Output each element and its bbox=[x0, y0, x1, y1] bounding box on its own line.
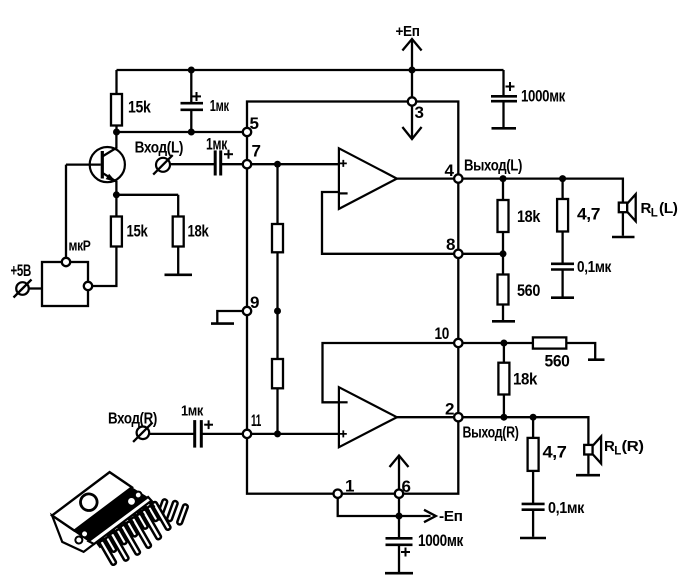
capacitor 1uF input L bbox=[171, 150, 248, 176]
pin number 5 bbox=[250, 114, 259, 133]
resistor 18k (channel L) bbox=[498, 179, 509, 254]
wire: emitter row to 18k bbox=[116, 194, 178, 196]
op-amp U1a bbox=[339, 148, 397, 209]
svg-text:10: 10 bbox=[435, 324, 450, 343]
value label 18k (left) bbox=[188, 222, 210, 241]
wire: pin1 to -Ep node bbox=[338, 498, 399, 516]
pin 9 terminal circle bbox=[243, 307, 251, 315]
pin nubs bbox=[95, 500, 155, 548]
ground at pin 9 bbox=[211, 311, 243, 324]
junction dot out R / 18k bbox=[500, 414, 507, 421]
resistor 560 (channel L) bbox=[498, 254, 509, 320]
svg-text:18k: 18k bbox=[517, 207, 541, 226]
pin number 1 bbox=[345, 477, 354, 496]
svg-text:15k: 15k bbox=[127, 222, 149, 241]
svg-text:1мк: 1мк bbox=[210, 98, 229, 115]
ground after 560 R bbox=[588, 358, 605, 361]
ground under 18k left bbox=[165, 273, 193, 276]
pin 3 terminal circle bbox=[408, 97, 416, 105]
label RL(L) bbox=[641, 200, 679, 220]
pin number 7 bbox=[252, 142, 261, 161]
svg-text:Выход(R): Выход(R) bbox=[463, 425, 519, 442]
svg-text:4,7: 4,7 bbox=[577, 205, 600, 224]
svg-text:7: 7 bbox=[252, 142, 261, 161]
resistor 18k (channel R) bbox=[498, 343, 509, 417]
pin number 2 bbox=[445, 400, 454, 419]
svg-text:11: 11 bbox=[251, 411, 261, 430]
junction dot -Ep node bbox=[396, 513, 403, 520]
wire: rail drop to 1000uF top cap bbox=[502, 70, 504, 96]
capacitor 0.1uF (channel R) bbox=[522, 504, 545, 537]
resistor 15k (lower left) bbox=[88, 195, 122, 286]
svg-text:-Еп: -Еп bbox=[439, 508, 463, 525]
capacitor 1000uF (bottom) bbox=[385, 538, 413, 573]
junction dot emitter node bbox=[113, 191, 120, 198]
pin 5 terminal circle bbox=[243, 128, 251, 136]
junction dot out L / 4.7 bbox=[559, 175, 566, 182]
svg-text:0,1мк: 0,1мк bbox=[548, 500, 585, 517]
junction dot pin9 row bbox=[274, 308, 281, 315]
svg-text:18k: 18k bbox=[513, 370, 538, 389]
wire: op2 feedback to pin 10 bbox=[323, 343, 459, 402]
pin 6 supply arrow into IC bbox=[390, 456, 409, 490]
label Vhod(L) bbox=[135, 139, 184, 156]
terminal input L bbox=[153, 155, 173, 175]
terminal +5V input bbox=[14, 280, 43, 298]
label Vyhod(R) bbox=[463, 425, 519, 442]
pin 4 terminal circle bbox=[454, 174, 462, 182]
svg-text:2: 2 bbox=[445, 400, 454, 419]
transistor Q1 (NPN) bbox=[66, 132, 125, 195]
op-amp U1b bbox=[339, 387, 397, 447]
ground under 0.1uF L bbox=[551, 296, 574, 299]
wire: pin6 down to bottom cap bbox=[398, 498, 400, 537]
left side sliver bbox=[46, 506, 94, 559]
capacitor 1uF input R bbox=[150, 420, 339, 448]
svg-text:Вход(L): Вход(L) bbox=[135, 139, 184, 156]
wire: pin10 row bbox=[458, 342, 533, 344]
svg-text:+Еп: +Еп bbox=[396, 23, 420, 40]
pin 7 terminal circle bbox=[243, 160, 251, 168]
svg-text:9: 9 bbox=[250, 293, 259, 312]
pin 6 terminal circle bbox=[395, 490, 403, 498]
front face strip bbox=[89, 496, 152, 545]
pin 10 terminal circle bbox=[454, 339, 462, 347]
capacitor 1000uF (top right) bbox=[491, 82, 517, 128]
speaker RL(L) bbox=[619, 194, 636, 236]
value label 0,1mk (R) bbox=[548, 500, 585, 517]
value label 1000mk (bottom) bbox=[418, 531, 464, 550]
junction dot pin11 row bbox=[274, 430, 281, 437]
svg-text:1мк: 1мк bbox=[206, 136, 228, 154]
svg-text:(R): (R) bbox=[622, 439, 645, 455]
pin number 10 bbox=[435, 324, 450, 343]
svg-text:3: 3 bbox=[415, 103, 424, 122]
svg-text:5: 5 bbox=[250, 114, 259, 133]
pin number 11 bbox=[251, 411, 261, 430]
wire: +Ep top supply rail bbox=[117, 69, 504, 71]
capacitor 0.1uF (channel L) bbox=[551, 264, 574, 297]
wire: op1 output to pin 4 bbox=[397, 177, 458, 179]
internal resistor (upper divider) bbox=[272, 164, 283, 311]
wire: pin7 row to op-amp 1 bbox=[247, 163, 339, 165]
svg-text:L: L bbox=[614, 446, 621, 458]
pin number 4 bbox=[445, 161, 455, 180]
label +5V bbox=[11, 262, 32, 280]
svg-text:18k: 18k bbox=[188, 222, 210, 241]
tab hole bbox=[77, 491, 100, 514]
junction dot out R / 4.7 bbox=[530, 414, 537, 421]
value label 1mk (input L) bbox=[206, 136, 228, 154]
node: box right terminal circle bbox=[84, 282, 92, 290]
label mkP bbox=[69, 239, 92, 255]
resistor 560 (channel R, horizontal) bbox=[533, 337, 595, 358]
label Vyhod(L) bbox=[464, 157, 522, 174]
wire: output L row bbox=[458, 179, 623, 203]
resistor 18k (left) bbox=[173, 195, 184, 274]
middle-row stub pins bbox=[105, 506, 159, 553]
value label 15k (top) bbox=[128, 98, 151, 117]
ground under speaker R bbox=[576, 474, 600, 477]
svg-text:L: L bbox=[651, 208, 658, 220]
junction dot pin10/18k bbox=[500, 340, 507, 347]
label +Ep bbox=[396, 23, 420, 40]
junction dot rail/+Ep bbox=[409, 67, 416, 74]
pin number 6 bbox=[402, 477, 411, 496]
value label 18k (R) bbox=[513, 370, 538, 389]
label Vhod(R) bbox=[108, 411, 157, 428]
value label 4,7 (R) bbox=[543, 443, 567, 462]
svg-text:Выход(L): Выход(L) bbox=[464, 157, 522, 174]
svg-text:(L): (L) bbox=[659, 201, 678, 217]
svg-text:15k: 15k bbox=[128, 98, 151, 117]
IC body outline (TDA7265) bbox=[247, 102, 458, 494]
pin 11 terminal circle bbox=[243, 430, 251, 438]
svg-text:мкР: мкР bbox=[69, 239, 92, 255]
resistor 4.7 (channel R) bbox=[528, 417, 539, 503]
pin 3 supply arrow into IC bbox=[402, 106, 421, 139]
value label 15k (lower) bbox=[127, 222, 149, 241]
front-row long pins bbox=[99, 501, 171, 565]
pin number 3 bbox=[415, 103, 424, 122]
svg-text:560: 560 bbox=[517, 281, 540, 300]
svg-text:8: 8 bbox=[446, 235, 455, 254]
speaker RL(R) bbox=[584, 437, 601, 474]
wire: op2 output to pin 2 bbox=[397, 416, 458, 418]
svg-text:6: 6 bbox=[402, 477, 411, 496]
junction dot 1uF/row5 bbox=[188, 129, 195, 136]
pin 2 terminal circle bbox=[454, 413, 462, 421]
body hole circles bbox=[74, 535, 84, 545]
node: box top terminal circle bbox=[62, 258, 70, 266]
junction dot pin8/560 bbox=[500, 250, 507, 257]
microprocessor control box mkP bbox=[42, 165, 88, 306]
svg-text:0,1мк: 0,1мк bbox=[577, 259, 612, 276]
junction dot 15k/collector row bbox=[113, 129, 120, 136]
value label 18k (L) bbox=[517, 207, 541, 226]
junction dot out L / 18k bbox=[500, 175, 507, 182]
ground under 560 L bbox=[492, 320, 515, 323]
black plastic body bbox=[74, 483, 148, 545]
value label 1mk (input R) bbox=[181, 404, 204, 420]
svg-text:1000мк: 1000мк bbox=[418, 531, 464, 550]
wire: row to pin 5 bbox=[117, 131, 248, 133]
junction dot pin7 row bbox=[274, 161, 281, 168]
back-row bent pins bbox=[133, 499, 188, 528]
junction dot rail/1uF bbox=[188, 67, 195, 74]
svg-text:560: 560 bbox=[545, 352, 570, 371]
capacitor 1uF (top, polarized) bbox=[181, 70, 204, 132]
svg-text:1мк: 1мк bbox=[181, 404, 204, 420]
value label 1mk (top) bbox=[210, 98, 229, 115]
svg-text:1: 1 bbox=[345, 477, 354, 496]
terminal input R bbox=[133, 422, 153, 442]
value label 4,7 (L) bbox=[577, 205, 600, 224]
pin number 8 bbox=[446, 235, 455, 254]
ground under 0.1uF R bbox=[520, 537, 546, 540]
value label 0,1mk (L) bbox=[577, 259, 612, 276]
label RL(R) bbox=[604, 438, 644, 458]
ground under speaker L bbox=[612, 236, 635, 239]
power symbol -Ep (arrow right) bbox=[399, 510, 436, 522]
svg-text:4: 4 bbox=[445, 161, 455, 180]
svg-text:4,7: 4,7 bbox=[543, 443, 567, 462]
value label 560 (R) bbox=[545, 352, 570, 371]
pin 1 terminal circle bbox=[334, 490, 342, 498]
resistor 15k (top left) bbox=[111, 70, 122, 132]
wire: pin8 row bbox=[458, 253, 503, 255]
wire: output R row bbox=[458, 417, 588, 445]
pin 8 terminal circle bbox=[454, 250, 462, 258]
resistor 4.7 (channel L) bbox=[557, 179, 568, 263]
label -Ep bbox=[439, 508, 463, 525]
IC package drawing (Multiwatt-11 perspective view) bbox=[46, 462, 189, 565]
value label 560 (L) bbox=[517, 281, 540, 300]
tab top face bbox=[52, 467, 132, 536]
wire: op1 feedback to pin 8 bbox=[322, 192, 458, 254]
svg-text:+5В: +5В bbox=[11, 262, 32, 280]
pin number 9 bbox=[250, 293, 259, 312]
value label 1000mk (top) bbox=[521, 86, 566, 105]
internal resistor (lower divider) bbox=[272, 311, 283, 434]
power symbol +Ep (arrow up) bbox=[402, 39, 421, 102]
svg-text:1000мк: 1000мк bbox=[521, 86, 566, 105]
